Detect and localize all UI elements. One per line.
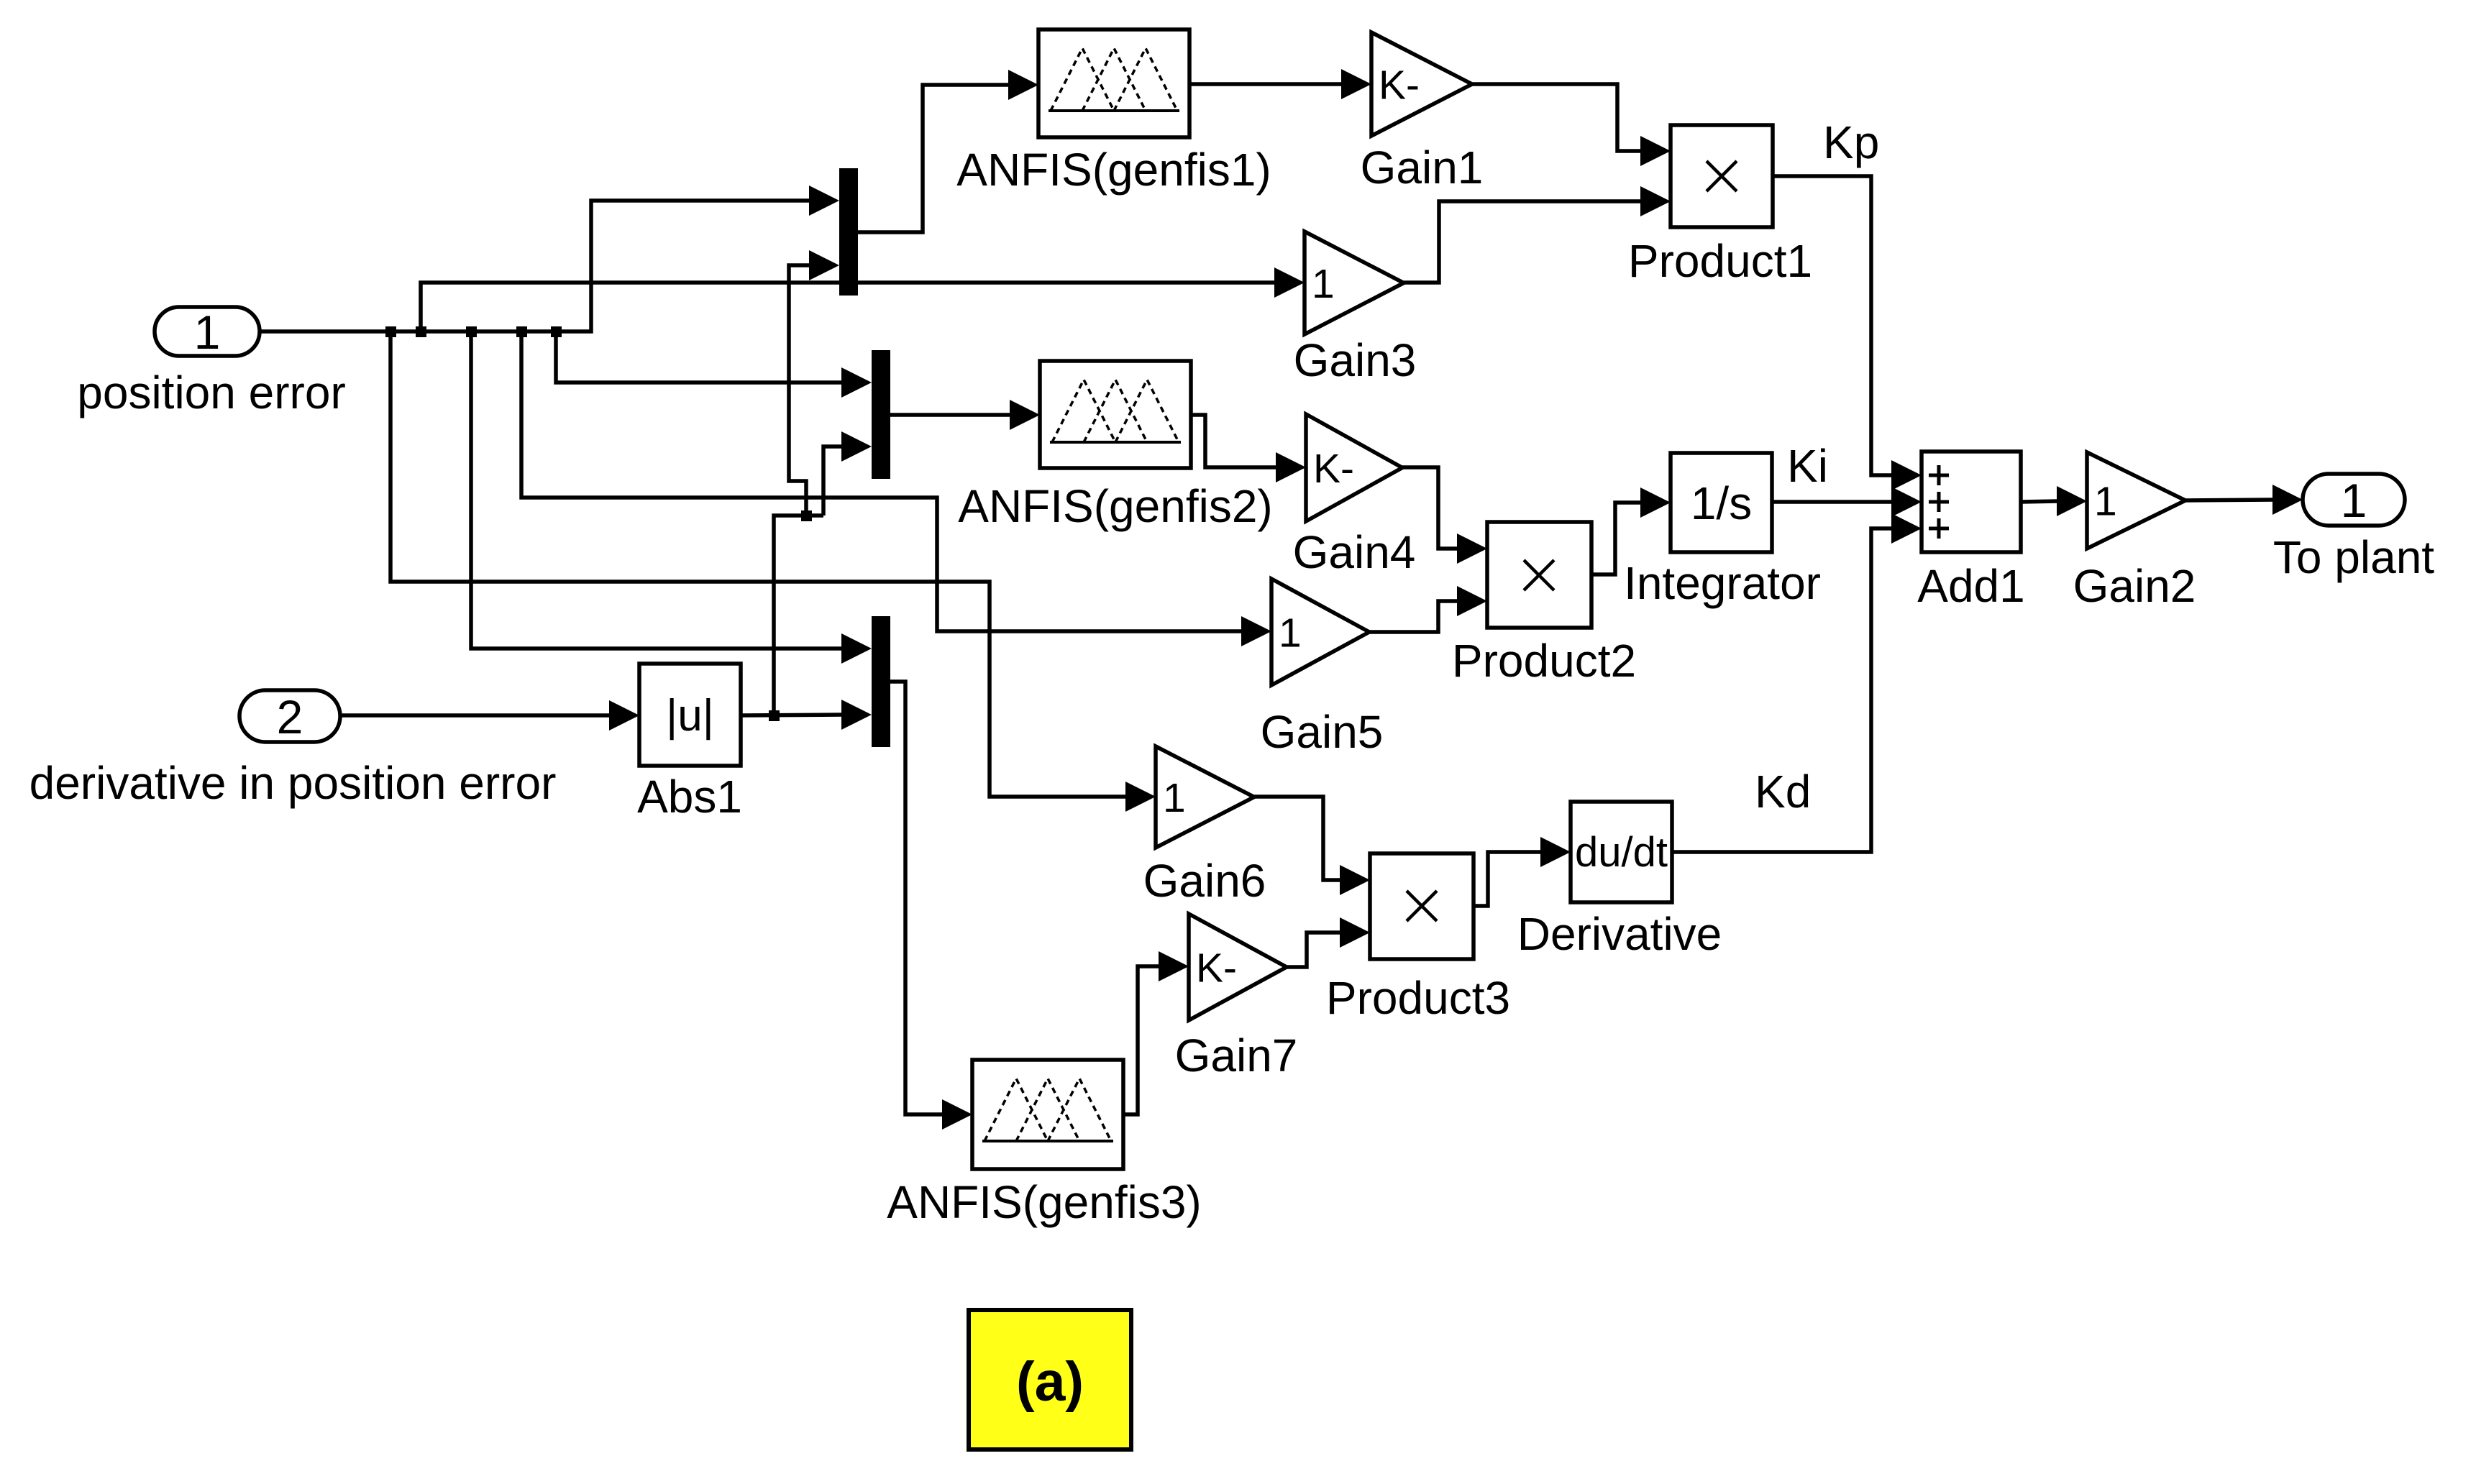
gain Gain1 xyxy=(1371,32,1472,136)
ANFIS(genfis2) block xyxy=(1040,361,1191,468)
wire ANFIS(genfis2) to Gain4 xyxy=(1191,415,1306,482)
svg-text:Gain7: Gain7 xyxy=(1175,1030,1298,1081)
gain Gain2 xyxy=(2087,452,2185,549)
product symbol x Product3 xyxy=(1407,891,1437,921)
junction J5 xyxy=(551,326,562,337)
wire e branch to Gain6 xyxy=(390,331,1156,812)
svg-text:K-: K- xyxy=(1313,446,1354,492)
product Product1 xyxy=(1671,125,1773,227)
wire Add1 to Gain2 xyxy=(2021,486,2087,516)
gain Gain7 xyxy=(1189,914,1287,1020)
svg-text:Gain4: Gain4 xyxy=(1293,526,1416,578)
product Product2 xyxy=(1487,522,1591,628)
svg-text:Kd: Kd xyxy=(1755,766,1811,817)
wire abs branch to Mux1 input 2 xyxy=(789,250,839,516)
wire Derivative to Add1 input 3 (Kd net) xyxy=(1672,513,1922,852)
svg-text:(a): (a) xyxy=(1016,1351,1084,1413)
svg-text:1/s: 1/s xyxy=(1691,477,1752,529)
svg-text:Integrator: Integrator xyxy=(1624,557,1821,609)
svg-text:Gain5: Gain5 xyxy=(1261,706,1384,758)
wire In2 to Abs1 xyxy=(340,700,639,730)
svg-text:derivative in position error: derivative in position error xyxy=(29,757,557,809)
gain Gain4 xyxy=(1306,414,1402,521)
product symbol x Product2 xyxy=(1524,560,1554,590)
svg-text:Gain6: Gain6 xyxy=(1143,855,1266,907)
junction J4 xyxy=(516,326,527,337)
svg-text:Product1: Product1 xyxy=(1628,235,1812,287)
derivative block Derivative xyxy=(1571,802,1672,902)
wire Gain7 to Product3 input 2 xyxy=(1287,917,1370,967)
wire abs branch riser xyxy=(774,516,823,715)
gain Gain3 xyxy=(1305,232,1404,334)
svg-text:K-: K- xyxy=(1379,63,1420,109)
svg-text:1: 1 xyxy=(1312,261,1335,307)
svg-text:1: 1 xyxy=(194,306,221,359)
wire Mux3 output to ANFIS(genfis3) xyxy=(890,682,972,1130)
wire Gain1 to Product1 input 1 xyxy=(1472,84,1671,166)
svg-text:Kp: Kp xyxy=(1823,116,1879,168)
mux Mux2 xyxy=(872,350,890,479)
wire e main from In1 to Mux1 input 1 xyxy=(260,185,839,331)
svg-text:Gain3: Gain3 xyxy=(1294,334,1417,386)
mux Mux3 xyxy=(872,616,890,747)
gain Gain6 xyxy=(1156,746,1254,848)
svg-text:2: 2 xyxy=(277,690,303,743)
wire Mux2 output to ANFIS(genfis2) xyxy=(890,400,1040,430)
svg-text:Ki: Ki xyxy=(1787,440,1828,492)
svg-text:du/dt: du/dt xyxy=(1575,829,1668,876)
svg-text:ANFIS(genfis3): ANFIS(genfis3) xyxy=(887,1176,1201,1228)
wire Gain2 to output port xyxy=(2185,485,2303,515)
wire Product1 to Add1 input 1 (Kp net) xyxy=(1773,176,1922,490)
caption box (a) xyxy=(969,1310,1131,1449)
product Product3 xyxy=(1370,853,1474,959)
input port In2 (2) xyxy=(239,690,340,743)
svg-text:1: 1 xyxy=(1163,775,1186,821)
wire e branch to Mux2 input 1 xyxy=(556,331,872,398)
svg-text:Gain1: Gain1 xyxy=(1361,142,1484,193)
svg-text:1: 1 xyxy=(2341,474,2367,527)
product symbol x Product1 xyxy=(1707,161,1737,191)
input port In1 (1) xyxy=(155,306,260,359)
mux Mux1 xyxy=(839,168,858,296)
wire ANFIS(genfis1) to Gain1 xyxy=(1189,69,1371,99)
gain Gain5 xyxy=(1271,579,1369,685)
wire Abs1 output to Mux3 input 2 xyxy=(741,700,872,730)
ANFIS(genfis1) block xyxy=(1038,29,1189,137)
junction J2 xyxy=(416,326,426,337)
svg-text:ANFIS(genfis1): ANFIS(genfis1) xyxy=(956,144,1271,196)
svg-text:Gain2: Gain2 xyxy=(2073,560,2196,612)
wire Gain5 to Product2 input 2 xyxy=(1369,586,1487,632)
svg-text:|u|: |u| xyxy=(666,691,714,741)
wire e branch to Gain3 xyxy=(421,267,1305,331)
svg-text:position error: position error xyxy=(77,367,346,418)
svg-text:ANFIS(genfis2): ANFIS(genfis2) xyxy=(958,480,1272,532)
svg-text:To plant: To plant xyxy=(2273,531,2434,583)
svg-text:Product3: Product3 xyxy=(1326,972,1510,1024)
abs block Abs1 xyxy=(639,664,741,766)
svg-text:Abs1: Abs1 xyxy=(637,771,742,823)
wire ANFIS(genfis3) to Gain7 xyxy=(1123,951,1189,1114)
wire abs branch to Mux2 input 2 xyxy=(823,431,872,516)
wire Product3 to Derivative xyxy=(1474,837,1571,906)
sum block Add1 xyxy=(1922,452,2021,552)
wire Gain6 to Product3 input 1 xyxy=(1254,797,1370,895)
svg-text:1: 1 xyxy=(2094,479,2117,525)
svg-text:K-: K- xyxy=(1196,945,1237,991)
wire Mux1 output to ANFIS(genfis1) xyxy=(858,70,1038,232)
svg-text:Derivative: Derivative xyxy=(1517,908,1722,960)
wire Integrator to Add1 input 2 (Ki net) xyxy=(1772,487,1922,517)
junction J6 xyxy=(769,710,780,721)
wire Gain4 to Product2 input 1 xyxy=(1402,467,1487,564)
svg-text:1: 1 xyxy=(1279,610,1302,656)
output port To plant (1) xyxy=(2303,474,2405,527)
ANFIS(genfis3) block xyxy=(972,1060,1123,1169)
svg-text:Add1: Add1 xyxy=(1917,560,2024,612)
junction J7 xyxy=(801,510,812,521)
wire e branch to Mux3 input 1 xyxy=(471,331,872,664)
junction J1 xyxy=(385,326,396,337)
junction J3 xyxy=(466,326,477,337)
integrator block Integrator xyxy=(1671,453,1772,552)
svg-text:Product2: Product2 xyxy=(1452,635,1636,687)
wire Product2 to Integrator xyxy=(1591,487,1671,574)
wire Gain3 to Product1 input 2 xyxy=(1404,186,1671,283)
wire e branch to Gain5 xyxy=(521,331,1271,646)
